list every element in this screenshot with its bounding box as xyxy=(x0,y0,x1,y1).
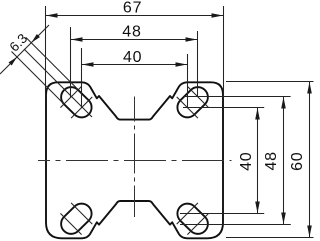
ext line 67 right xyxy=(223,6,225,96)
ext line 40 left xyxy=(81,48,83,108)
6.3 upper arrow xyxy=(32,34,40,42)
horizontal centerline xyxy=(38,160,232,162)
slot hole bottom-right xyxy=(177,204,207,234)
slot BL tick outer xyxy=(60,213,81,234)
svg-text:48: 48 xyxy=(263,151,280,170)
dim line 67 xyxy=(46,15,224,17)
dim line 40 right xyxy=(257,108,259,214)
ext line right 60-row top xyxy=(226,81,314,83)
slot TR tick outer xyxy=(187,86,208,107)
svg-text:48: 48 xyxy=(122,23,141,40)
ext line 48 right xyxy=(197,31,199,97)
svg-text:67: 67 xyxy=(123,0,142,17)
6.3 lower arrow xyxy=(9,57,17,65)
slot TL tick outer xyxy=(60,86,81,107)
ext line right 48-row top xyxy=(183,96,291,98)
svg-text:40: 40 xyxy=(238,151,255,170)
6.3 ext line lower tangent xyxy=(12,52,65,105)
slot hole bottom-left xyxy=(61,204,91,234)
slot BL tick inner xyxy=(71,203,92,224)
slot TR tick inner xyxy=(177,97,198,118)
plate outline xyxy=(46,82,223,238)
6.3 ext line upper tangent xyxy=(26,38,78,90)
vertical centerline xyxy=(134,97,136,218)
dim line 48 right xyxy=(283,97,285,225)
svg-text:40: 40 xyxy=(123,49,142,66)
slot hole top-right xyxy=(177,87,207,117)
6.3 ext line slot axis xyxy=(24,49,92,117)
ext line 40 right xyxy=(187,54,189,108)
ext line right 48-row bottom xyxy=(180,224,291,226)
svg-text:60: 60 xyxy=(289,151,306,170)
slot hole top-left xyxy=(61,87,91,117)
6.3 dim line xyxy=(0,25,49,74)
ext line right 40-row top xyxy=(183,107,264,109)
ext line 67 left xyxy=(45,6,47,96)
dim line 40 top xyxy=(82,64,188,66)
svg-text:6.3: 6.3 xyxy=(6,31,30,55)
slot BR tick outer xyxy=(187,213,208,234)
ext line 48 left xyxy=(70,27,72,97)
ext line right 40-row bottom xyxy=(180,213,264,215)
slot TL tick inner xyxy=(71,97,92,118)
dim line 48 xyxy=(71,39,198,41)
dim line 60 right xyxy=(309,82,311,238)
ext line right 60-row bottom xyxy=(226,237,314,239)
slot BR tick inner xyxy=(177,203,198,224)
